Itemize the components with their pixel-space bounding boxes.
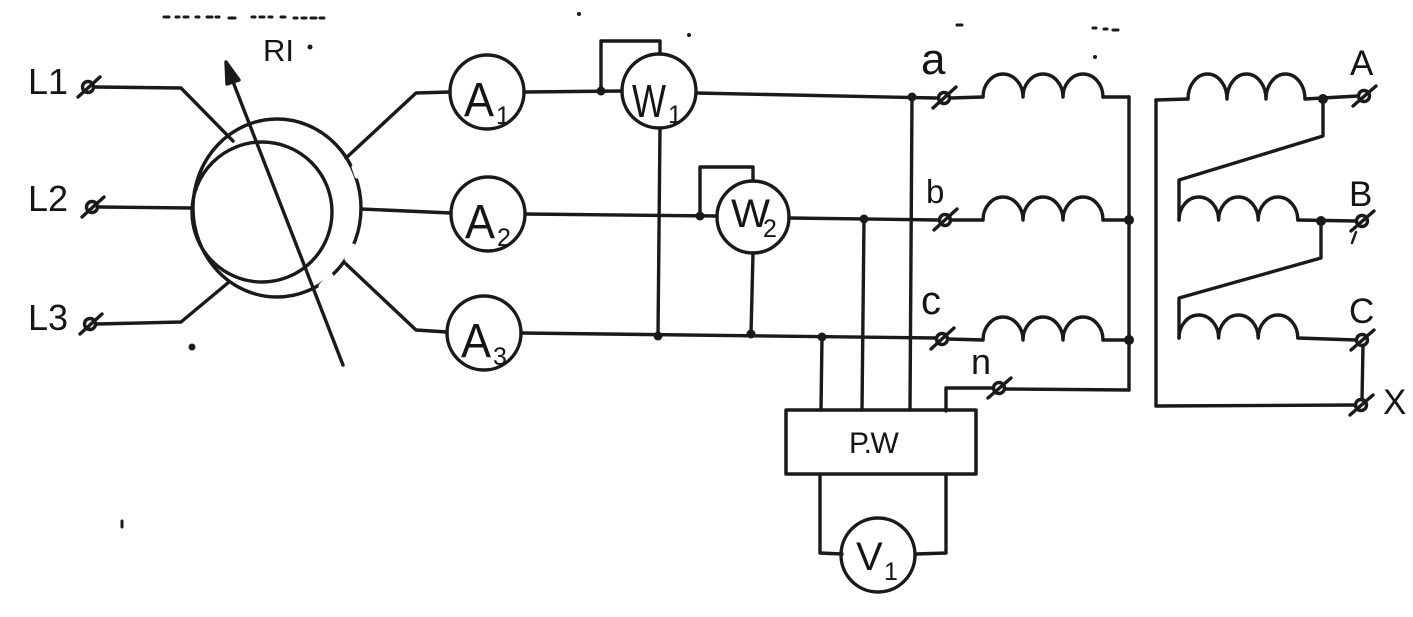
- inductor coil phase a: [983, 74, 1103, 97]
- svg-text:A: A: [464, 74, 494, 127]
- svg-text:c: c: [921, 279, 941, 323]
- inductor coil phase B secondary: [1179, 197, 1298, 220]
- variac wiper arrow: [226, 62, 343, 365]
- svg-text:W: W: [632, 75, 666, 127]
- wire L1 to variac: [95, 87, 233, 141]
- scan speck dot right of a: [1093, 55, 1097, 59]
- inductor coil phase c: [983, 317, 1103, 340]
- terminal a: [933, 87, 956, 108]
- wire coil b to bus: [1103, 218, 1129, 221]
- wire vertical from row2 to P.W: [862, 219, 864, 410]
- node junction dot before W2: [696, 212, 705, 221]
- terminal L2: [82, 197, 104, 217]
- wire X to secondary bus bottom: [1156, 405, 1355, 406]
- wire W2 return vertical: [751, 253, 753, 334]
- svg-text:A: A: [461, 315, 491, 368]
- scan speck near W1: [687, 33, 691, 37]
- wire n to P.W: [946, 388, 993, 411]
- inductor coil phase b: [983, 197, 1103, 220]
- wire zigzag A to B: [1179, 99, 1323, 220]
- terminal c: [931, 328, 954, 349]
- wattmeter W2: [717, 181, 789, 253]
- wattmeter W1: [622, 54, 696, 129]
- svg-text:2: 2: [497, 224, 511, 252]
- ammeter A3: [447, 296, 521, 371]
- wire W1 to terminal a: [696, 93, 936, 98]
- node junction dot bus c: [1124, 335, 1134, 345]
- wire a to coil: [950, 97, 983, 98]
- inductor coil phase C secondary: [1179, 315, 1298, 338]
- wire variac to A3: [346, 264, 447, 332]
- terminal A: [1353, 86, 1376, 106]
- wire A3 to terminal c: [521, 333, 936, 338]
- terminal L1: [78, 77, 100, 97]
- svg-text:1: 1: [884, 558, 898, 586]
- scan speck dot below L3: [189, 344, 196, 351]
- terminal B: [1351, 211, 1374, 231]
- wire P.W right to V1: [916, 475, 946, 554]
- wire vertical from row3 to P.W: [821, 337, 822, 410]
- svg-text:n: n: [971, 341, 991, 382]
- wire variac to A2: [361, 209, 451, 213]
- voltmeter V1: [841, 518, 915, 592]
- node junction dot bus b: [1124, 215, 1134, 225]
- scan speck dot near R1: [308, 45, 313, 50]
- terminal C: [1351, 330, 1374, 350]
- scan specks top dotted row: [164, 17, 1118, 30]
- svg-text:P.W: P.W: [849, 427, 899, 460]
- wire W1 current return vertical: [658, 128, 660, 336]
- wire bus to coil A: [1156, 99, 1188, 100]
- terminal b: [934, 209, 957, 230]
- wire c to coil: [948, 339, 983, 340]
- svg-text:V: V: [856, 535, 883, 579]
- node junction dot row1: [908, 93, 917, 102]
- node junction dot before W1: [597, 87, 606, 96]
- wire coil C to terminal C: [1298, 338, 1356, 340]
- wire A2 to W2: [525, 214, 717, 216]
- wire C to X: [1362, 346, 1363, 400]
- terminal X: [1350, 395, 1373, 415]
- wire L3 to variac: [97, 282, 229, 324]
- wire coil c to bus: [1103, 338, 1129, 341]
- terminal n: [988, 378, 1011, 398]
- svg-text:A: A: [1350, 44, 1374, 83]
- node junction dot W2-row3: [747, 330, 756, 339]
- wire W2 voltage-coil loop: [700, 167, 753, 216]
- node junction dot A: [1318, 94, 1328, 104]
- variac outer circle scan gaps: [321, 167, 357, 286]
- svg-text:1: 1: [668, 101, 682, 129]
- svg-text:A: A: [465, 196, 495, 249]
- wire A1 to W1: [524, 91, 622, 92]
- scan speck apostrophe below B: [1352, 232, 1356, 243]
- svg-text:RI: RI: [263, 33, 294, 68]
- node junction dot row2: [860, 215, 869, 224]
- variac R1 outer circle: [193, 119, 361, 297]
- wire b to coil: [950, 218, 983, 221]
- ammeter A2: [451, 177, 525, 252]
- svg-text:L2: L2: [28, 178, 68, 219]
- svg-text:B: B: [1349, 175, 1372, 214]
- wire bus to terminal n: [1005, 389, 1129, 390]
- wire W2 to terminal b: [789, 218, 938, 220]
- wire coil a to bus: [1103, 95, 1129, 98]
- svg-text:C: C: [1349, 292, 1374, 331]
- svg-text:a: a: [921, 35, 946, 84]
- terminal L3: [80, 314, 102, 334]
- node junction dot B: [1316, 216, 1326, 226]
- svg-text:L1: L1: [28, 61, 68, 102]
- wire vertical from row1 to P.W: [910, 97, 912, 410]
- svg-text:L3: L3: [28, 297, 68, 338]
- variac R1 inner circle: [192, 142, 332, 282]
- ammeter A1: [450, 55, 524, 130]
- wire P.W left to V1: [820, 475, 842, 554]
- box P.W: [786, 410, 976, 474]
- node junction dot row3: [818, 333, 827, 342]
- wire L2 to variac: [99, 207, 192, 208]
- wire coil B to terminal B: [1298, 220, 1356, 221]
- wire zigzag B to C: [1179, 221, 1321, 338]
- wire star bus: [1127, 97, 1130, 390]
- svg-text:X: X: [1383, 383, 1406, 422]
- wire W1 voltage-coil loop: [601, 41, 660, 91]
- svg-text:2: 2: [763, 215, 777, 243]
- svg-text:b: b: [926, 173, 944, 210]
- wire secondary left bus: [1154, 100, 1157, 406]
- wire variac to A1: [346, 92, 450, 158]
- svg-text:3: 3: [493, 343, 507, 371]
- svg-text:1: 1: [496, 102, 510, 130]
- node junction dot W1-row3: [654, 332, 663, 341]
- inductor coil phase A secondary: [1188, 74, 1305, 99]
- wire coil A to terminal A: [1305, 96, 1358, 99]
